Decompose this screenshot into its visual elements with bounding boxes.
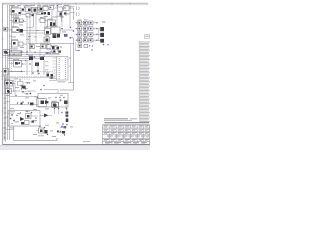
connector J2 blocks [98,27,105,43]
left connector block [3,49,23,56]
component value labels top [10,4,70,25]
crystal Y1 [50,50,61,54]
bottom connector route [6,126,58,141]
connector ticks bottom [3,128,5,140]
buzzer LS1 cluster [36,126,48,137]
column x65-69 comps [54,108,69,126]
LED D6 [21,91,31,93]
logic gate array U6 [76,20,98,42]
pot RV1 cluster [52,99,68,108]
gate inter-row links [76,25,99,50]
sheet border frame [0,3,150,150]
LED D7 [24,93,31,95]
power bus wires [4,5,11,142]
box top wires [10,97,65,99]
extra horizontal wires [6,21,59,102]
connector J1 pin ticks [4,78,7,138]
driver Q3 cluster [4,79,24,96]
LED wires [14,79,24,95]
LED D4 [20,85,26,89]
node tag A [69,37,74,39]
arrow diode D8 [40,114,52,118]
resistor R3 cluster [10,26,27,33]
sub-circuit box sense [38,94,68,108]
small caps row [52,46,62,52]
sheet footnote [83,140,90,143]
extra vertical drops [13,5,70,44]
comparator U3 cluster [27,26,51,50]
LED D9 cluster [59,126,67,136]
wire vright [60,38,74,90]
filter C group [43,5,54,22]
wire h43 [28,44,74,46]
extra cluster marks [6,9,66,133]
component value labels mid [12,30,66,49]
wire top chain [21,8,74,20]
analog cluster mid [30,43,57,59]
svg-text:( ): ( ) [76,5,80,10]
node tag B [40,85,45,90]
dashed rail 2 [1,75,55,77]
dashed rail 3 [1,78,30,80]
dotted rail [1,57,20,59]
blue tag mid [46,53,51,55]
fuse F1 cluster [3,58,22,75]
net label (VCC) [70,5,80,10]
bus wires mid [8,52,60,60]
opto U4 cluster [51,26,74,39]
signal reference table [139,35,150,122]
vertical dashed partition [32,26,34,50]
IC left pins [53,58,57,76]
rail tap resistors [46,72,54,77]
dashed rail 1 [1,71,55,73]
component value labels bottom [5,78,73,137]
resistor network RN1 [26,51,44,60]
oscillator circuit cluster [10,7,26,24]
junction dots mid [13,52,44,57]
transistor Q1 pair [47,19,56,27]
regulator U2 cluster [24,5,41,52]
border zone ticks [2,2,130,128]
pin name labels [26,34,71,71]
capacitor C5 cluster [10,39,28,47]
output box interior extra [8,111,37,124]
LED D5 [22,88,28,90]
aux top-left parts [4,15,25,31]
blue refs below gates [76,22,109,52]
title block [103,118,150,144]
relay K1 cluster [10,59,27,67]
microcontroller U5 [49,44,74,83]
LED D3 [25,82,31,84]
gate row extra [78,43,93,48]
net label (GND) [70,11,80,16]
pre-driver cluster [38,7,48,23]
output stage components [6,111,39,125]
svg-text:( ): ( ) [76,11,80,16]
mid cluster x36-49 y98-107 [37,97,50,107]
capacitor C7 group [27,60,44,75]
diode D1 group [57,5,70,22]
sense components [10,98,68,107]
sub-circuit box output [8,111,40,127]
